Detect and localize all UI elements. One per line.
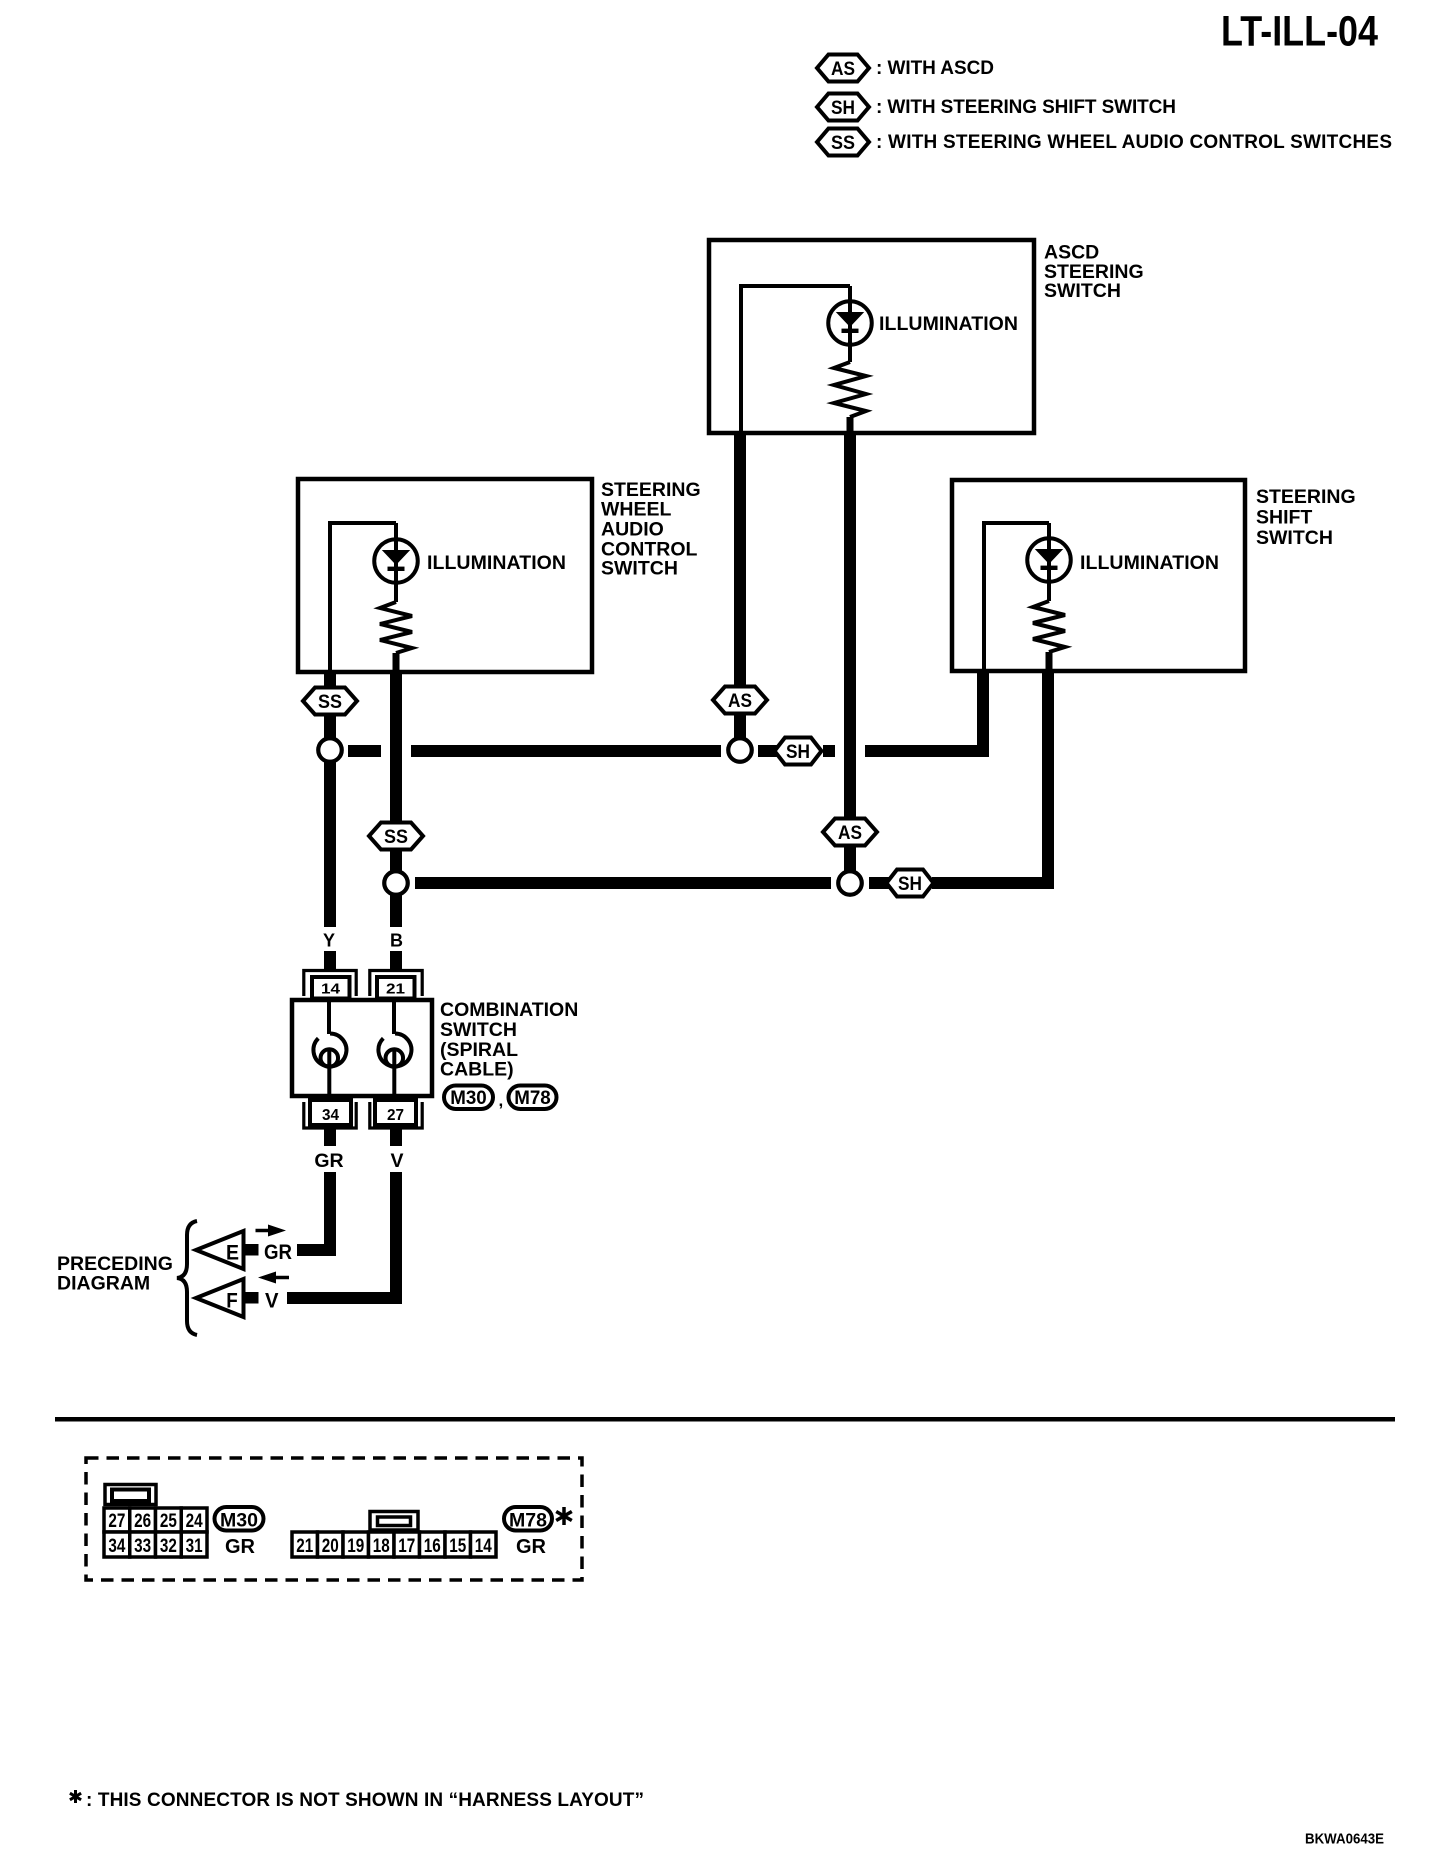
resistor audio xyxy=(380,602,412,653)
spiral cable symbol left xyxy=(313,1000,346,1096)
svg-text:F: F xyxy=(226,1290,238,1313)
svg-text:SS: SS xyxy=(384,827,408,848)
connector triangle F xyxy=(196,1279,244,1317)
svg-text:: WITH ASCD: : WITH ASCD xyxy=(876,58,994,79)
svg-text:STEERING: STEERING xyxy=(1256,486,1356,508)
tag SS on wire A xyxy=(303,688,357,715)
svg-text:34: 34 xyxy=(322,1107,339,1124)
tag SS on wire B xyxy=(369,823,423,850)
svg-text:: THIS CONNECTOR IS NOT SHOWN: : THIS CONNECTOR IS NOT SHOWN IN “HARNES… xyxy=(86,1790,644,1811)
wire inner loop shift box xyxy=(984,523,1049,671)
wire bus2 from junction B toward junction D xyxy=(415,877,831,889)
svg-text:21: 21 xyxy=(296,1536,313,1557)
footnote star xyxy=(70,1790,81,1803)
svg-text:ILLUMINATION: ILLUMINATION xyxy=(879,313,1018,335)
svg-text:SH: SH xyxy=(898,874,922,895)
label ASCD STEERING SWITCH xyxy=(1044,242,1144,303)
svg-text:25: 25 xyxy=(160,1511,177,1532)
connector ref M30 oval detail xyxy=(215,1507,264,1532)
svg-text:AS: AS xyxy=(728,691,752,712)
svg-text:17: 17 xyxy=(398,1536,415,1557)
svg-text:SWITCH: SWITCH xyxy=(1256,527,1333,549)
svg-text:GR: GR xyxy=(314,1150,343,1172)
box steering wheel audio control switch xyxy=(298,479,592,672)
label STEERING SHIFT SWITCH xyxy=(1256,486,1356,549)
svg-text:ILLUMINATION: ILLUMINATION xyxy=(1080,552,1219,574)
connector bracket pin 27 xyxy=(370,1102,422,1128)
junction B circle xyxy=(384,871,408,895)
wire GR down and corner west xyxy=(297,1172,330,1250)
wire bus1 segment after tag SH xyxy=(823,745,835,757)
connector M30 pin grid row1 pins 27 26 25 24 xyxy=(104,1508,207,1532)
box steering shift switch xyxy=(952,480,1245,671)
svg-text:14: 14 xyxy=(321,981,341,998)
connector ref M30 oval xyxy=(444,1086,493,1110)
wire bus1 segment from junction A xyxy=(348,745,381,757)
wire V stub below pin 27 xyxy=(390,1129,402,1146)
svg-text:32: 32 xyxy=(160,1536,177,1557)
svg-text:GR: GR xyxy=(264,1241,292,1264)
svg-text:SWITCH: SWITCH xyxy=(440,1019,517,1041)
wire resistor to ASCD box bottom xyxy=(847,417,854,433)
svg-text:SWITCH: SWITCH xyxy=(601,558,678,580)
svg-text:M78: M78 xyxy=(509,1511,547,1532)
svg-text:SH: SH xyxy=(831,98,855,119)
legend tag SH xyxy=(817,94,869,121)
svg-text:34: 34 xyxy=(108,1536,125,1557)
svg-text:M30: M30 xyxy=(220,1511,258,1532)
wire bus1 segment middle xyxy=(411,745,721,757)
connector M78 tab xyxy=(370,1512,418,1531)
arrow left above V xyxy=(258,1272,289,1284)
label COMBINATION SWITCH (SPIRAL CABLE) xyxy=(440,999,578,1081)
wire bus1 segment right with corner up to shift box left leg xyxy=(865,672,983,751)
svg-text:SS: SS xyxy=(831,133,855,154)
wire resistor to shift box bottom xyxy=(1046,652,1053,671)
svg-text:27: 27 xyxy=(387,1107,404,1124)
junction D circle xyxy=(838,871,862,895)
wire resistor to audio box bottom xyxy=(393,653,400,672)
pin box 34 xyxy=(310,1100,351,1125)
wire B below B label to connector 21 xyxy=(390,951,402,969)
svg-text:20: 20 xyxy=(322,1536,339,1557)
svg-text:16: 16 xyxy=(424,1536,441,1557)
svg-text:SWITCH: SWITCH xyxy=(1044,280,1121,302)
wire A vertical from audio box left leg xyxy=(324,672,336,927)
wire bus2 stub junction D to tag SH xyxy=(869,877,895,889)
connector M30 pin grid row2 pins 34 33 32 31 xyxy=(104,1532,207,1557)
resistor ASCD xyxy=(834,362,866,417)
svg-text:AS: AS xyxy=(838,823,862,844)
svg-text:M78: M78 xyxy=(514,1088,551,1109)
separator line xyxy=(55,1417,1395,1422)
svg-text:15: 15 xyxy=(449,1536,466,1557)
stub black E xyxy=(243,1244,259,1256)
svg-text:26: 26 xyxy=(134,1511,151,1532)
svg-text:GR: GR xyxy=(516,1536,547,1558)
connector bracket pin 34 xyxy=(304,1102,356,1128)
tag SH on bus2 xyxy=(887,870,934,897)
svg-text:AS: AS xyxy=(831,59,855,80)
wire inner loop audio box xyxy=(330,523,396,672)
box ASCD steering switch xyxy=(709,240,1034,433)
connector bracket pin 21 xyxy=(370,971,422,997)
tag AS on wire C xyxy=(713,687,767,714)
svg-text:: WITH STEERING SHIFT SWITCH: : WITH STEERING SHIFT SWITCH xyxy=(876,97,1176,118)
diode illumination shift (lamp) xyxy=(1027,523,1071,601)
connector M78 pin row pins 21 20 19 18 17 16 15 14 xyxy=(292,1532,496,1557)
brace preceding diagram xyxy=(177,1221,197,1335)
svg-text:33: 33 xyxy=(134,1536,151,1557)
wire bus1 stub junction C to tag SH xyxy=(758,745,790,757)
svg-text:AUDIO: AUDIO xyxy=(601,519,664,541)
svg-text:18: 18 xyxy=(373,1536,390,1557)
wire V down and corner west xyxy=(287,1172,396,1298)
junction A circle xyxy=(318,738,342,762)
pin box 21 xyxy=(377,977,415,999)
svg-text:M30: M30 xyxy=(450,1088,487,1109)
tag AS on wire D xyxy=(823,819,877,846)
svg-text:V: V xyxy=(390,1150,403,1172)
diode illumination ASCD (lamp) xyxy=(828,286,872,362)
svg-text:: WITH STEERING WHEEL AUDIO CO: : WITH STEERING WHEEL AUDIO CONTROL SWIT… xyxy=(876,132,1392,153)
label PRECEDING DIAGRAM xyxy=(57,1253,173,1295)
svg-text:COMBINATION: COMBINATION xyxy=(440,999,578,1021)
svg-text:,: , xyxy=(499,1091,504,1110)
connector ref M78 oval xyxy=(509,1086,557,1110)
asterisk star at M78 xyxy=(556,1507,572,1525)
svg-text:31: 31 xyxy=(186,1536,203,1557)
svg-text:E: E xyxy=(226,1242,239,1265)
tag SH on bus1 xyxy=(775,738,822,765)
wire bus2 after tag SH with corner up to shift box right leg xyxy=(932,671,1048,883)
stub black F xyxy=(243,1292,259,1304)
svg-text:V: V xyxy=(265,1290,279,1313)
svg-text:B: B xyxy=(390,931,403,951)
legend tag SS xyxy=(817,129,869,156)
svg-text:SH: SH xyxy=(786,742,810,763)
svg-text:DIAGRAM: DIAGRAM xyxy=(57,1273,150,1295)
label STEERING WHEEL AUDIO CONTROL SWITCH xyxy=(601,479,701,580)
connector M30 tab xyxy=(105,1485,156,1505)
connector ref M78 oval detail xyxy=(504,1507,552,1532)
svg-text:14: 14 xyxy=(475,1536,492,1557)
connector bracket pin 14 xyxy=(304,971,356,997)
wire inner loop ASCD box xyxy=(741,286,850,433)
wire D vertical from ASCD box right leg xyxy=(844,433,856,877)
svg-text:GR: GR xyxy=(225,1536,256,1558)
arrow right above GR xyxy=(256,1225,287,1237)
svg-text:19: 19 xyxy=(347,1536,364,1557)
wire B vertical from audio box right leg xyxy=(390,672,402,927)
pin box 27 xyxy=(375,1100,416,1125)
connector triangle E xyxy=(196,1231,244,1269)
svg-text:Y: Y xyxy=(323,931,335,951)
svg-text:SHIFT: SHIFT xyxy=(1256,507,1312,529)
resistor shift xyxy=(1033,601,1065,652)
svg-text:CABLE): CABLE) xyxy=(440,1059,514,1081)
dashed detail box xyxy=(86,1458,582,1580)
svg-text:21: 21 xyxy=(386,981,405,998)
junction C circle xyxy=(728,738,752,762)
svg-text:ILLUMINATION: ILLUMINATION xyxy=(427,552,566,574)
pin box 14 xyxy=(312,977,350,999)
spiral cable symbol right xyxy=(378,1000,411,1096)
svg-text:LT-ILL-04: LT-ILL-04 xyxy=(1221,9,1378,56)
diode illumination audio (lamp) xyxy=(374,523,418,602)
svg-text:SS: SS xyxy=(318,692,342,713)
wire GR stub below pin 34 xyxy=(324,1129,336,1146)
wire C vertical from ASCD box left leg xyxy=(734,433,746,750)
svg-text:BKWA0643E: BKWA0643E xyxy=(1305,1831,1384,1848)
wire A below Y label to connector 14 xyxy=(324,951,336,969)
legend tag AS xyxy=(817,55,869,82)
svg-text:WHEEL: WHEEL xyxy=(601,499,672,521)
svg-text:24: 24 xyxy=(186,1511,203,1532)
box combination switch spiral cable xyxy=(292,1000,432,1096)
svg-text:27: 27 xyxy=(108,1511,125,1532)
